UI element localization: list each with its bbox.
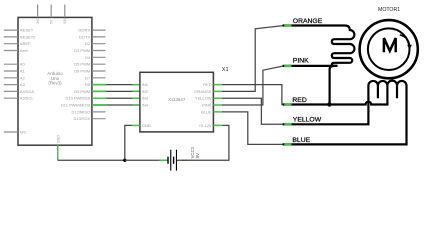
svg-text:D8: D8 xyxy=(85,82,91,87)
arduino D8-D11 green pin stubs xyxy=(92,85,106,105)
svg-text:D11 PWM/MOSI: D11 PWM/MOSI xyxy=(61,103,90,108)
green pin tips of motor leads xyxy=(284,26,291,145)
svg-text:ioref: ioref xyxy=(20,48,29,53)
wire arduino GND down to ground rail xyxy=(58,145,125,160)
svg-text:PINK: PINK xyxy=(202,103,212,108)
junction RED common node xyxy=(327,102,331,106)
Arduino Uno module xyxy=(4,5,106,146)
svg-text:D4: D4 xyxy=(85,55,91,60)
wire D11 to IN4 xyxy=(92,104,140,106)
svg-text:D5 PWM: D5 PWM xyxy=(74,62,90,67)
wire battery plus to X1 +5-12V xyxy=(177,125,229,160)
svg-text:(Rev3): (Rev3) xyxy=(48,81,62,86)
svg-text:GND: GND xyxy=(142,123,151,128)
svg-text:IN3: IN3 xyxy=(142,96,149,101)
svg-text:3V3: 3V3 xyxy=(36,18,40,24)
svg-text:VIN: VIN xyxy=(63,18,67,24)
svg-text:IN1: IN1 xyxy=(142,82,149,87)
svg-text:A2: A2 xyxy=(20,75,26,80)
svg-text:D1/TX: D1/TX xyxy=(79,34,91,39)
svg-text:N/C: N/C xyxy=(20,130,27,135)
svg-text:ORANGE: ORANGE xyxy=(194,89,212,94)
X1 GND stub xyxy=(132,124,140,126)
wire X1 PINK pin to motor PINK lead xyxy=(222,66,284,105)
svg-text:D10 PWM/SS: D10 PWM/SS xyxy=(66,96,91,101)
svg-text:+5-12V: +5-12V xyxy=(199,123,212,128)
svg-text:GND: GND xyxy=(57,135,61,144)
X113647 driver X1 xyxy=(132,67,229,132)
svg-text:PINK: PINK xyxy=(293,58,309,65)
svg-text:AREF: AREF xyxy=(20,41,31,46)
svg-text:BLUE: BLUE xyxy=(201,109,212,114)
minus short plate 2 xyxy=(173,157,174,164)
svg-text:D0/RX: D0/RX xyxy=(78,28,90,33)
wire X1 YELLOW pin to motor YELLOW lead xyxy=(222,98,284,124)
wire X1 ORANGE pin to motor ORANGE lead xyxy=(222,26,284,92)
PINK lead xyxy=(283,65,338,67)
svg-text:IN2: IN2 xyxy=(142,89,149,94)
plus tall plate 2 xyxy=(176,150,177,171)
winding B with YELLOW and BLUE legs xyxy=(283,81,407,145)
svg-text:A4/SDA: A4/SDA xyxy=(20,89,35,94)
wire D9 to IN2 xyxy=(92,90,140,92)
svg-text:MOTOR1: MOTOR1 xyxy=(378,7,400,13)
svg-text:A1: A1 xyxy=(20,69,26,74)
svg-text:A3: A3 xyxy=(20,82,26,87)
svg-text:IN4: IN4 xyxy=(142,103,149,108)
svg-text:BLUE: BLUE xyxy=(292,137,310,144)
svg-text:X1: X1 xyxy=(222,67,229,73)
svg-text:D7: D7 xyxy=(85,75,91,80)
arduino body xyxy=(18,17,92,145)
motor outer circle xyxy=(360,20,418,78)
svg-text:D3 PWM: D3 PWM xyxy=(74,48,90,53)
stepper motor MOTOR1 xyxy=(283,7,418,145)
battery VCC1 9V xyxy=(167,146,200,170)
wire D8 to IN1 xyxy=(92,84,140,86)
svg-text:X113647: X113647 xyxy=(168,97,186,102)
motor inner circle xyxy=(368,28,410,70)
left pin stubs RESET RESET2 AREF ioref A0-A3 A4/SDA A5/SCL N/C xyxy=(4,30,18,132)
svg-text:YELLOW: YELLOW xyxy=(195,96,212,101)
right unused pin stubs D0-D7 D12 D13 xyxy=(92,30,106,119)
winding B inner stubs xyxy=(378,85,397,98)
svg-text:RED: RED xyxy=(292,97,306,104)
top pin stubs 3V3 5V VIN xyxy=(38,5,65,18)
svg-text:ORANGE: ORANGE xyxy=(293,18,323,25)
M letter xyxy=(384,38,396,52)
svg-text:A0: A0 xyxy=(20,62,26,67)
svg-text:D6 PWM: D6 PWM xyxy=(74,69,90,74)
wire X1 GND to ground rail xyxy=(125,125,132,160)
svg-text:D13/SCK: D13/SCK xyxy=(74,116,91,121)
svg-text:YELLOW: YELLOW xyxy=(293,117,322,124)
svg-text:D12/MISO: D12/MISO xyxy=(72,109,91,114)
ORANGE lead into winding A xyxy=(283,26,355,105)
X1 body xyxy=(140,72,214,132)
svg-text:RED: RED xyxy=(203,82,212,87)
svg-text:A5/SCL: A5/SCL xyxy=(20,96,35,101)
wire junction to battery minus xyxy=(125,159,168,161)
plus tall plate xyxy=(170,150,171,171)
wire X1 BLUE pin to motor BLUE lead xyxy=(222,112,284,144)
junction ground rail node xyxy=(123,159,126,162)
svg-text:RESET: RESET xyxy=(20,28,34,33)
svg-text:D9 PWM: D9 PWM xyxy=(74,89,90,94)
wire X1 RED pin to motor RED lead xyxy=(222,85,284,105)
minus short plate xyxy=(167,157,168,164)
svg-text:RESET2: RESET2 xyxy=(20,34,36,39)
RED lead with hop, to winding B centre tap xyxy=(283,85,388,104)
rotation arrow xyxy=(400,35,410,45)
svg-text:D2: D2 xyxy=(85,41,91,46)
svg-text:9V: 9V xyxy=(195,153,200,158)
X1 right pin stubs xyxy=(213,85,222,126)
svg-text:5V: 5V xyxy=(50,19,54,24)
wire D10 to IN3 xyxy=(92,97,140,99)
